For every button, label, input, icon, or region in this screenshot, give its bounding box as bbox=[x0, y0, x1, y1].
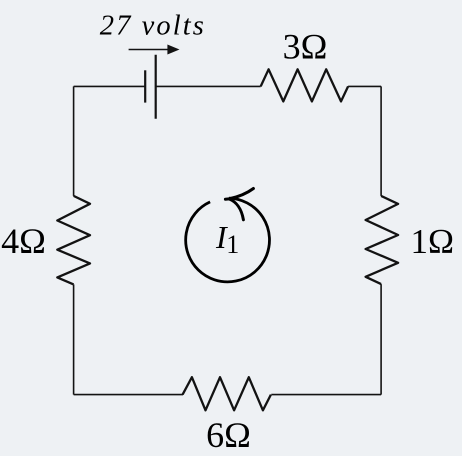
battery V1 27 volts bbox=[145, 55, 156, 119]
svg-text:1: 1 bbox=[226, 230, 239, 259]
svg-text:27 volts: 27 volts bbox=[100, 11, 204, 42]
battery positive plate (tall) bbox=[155, 55, 157, 119]
resistor R 4ohm bbox=[57, 196, 90, 285]
loop arrowhead bbox=[225, 189, 253, 220]
resistor R 6ohm bbox=[183, 377, 271, 410]
wire left upper segment bbox=[73, 86, 75, 195]
wire top-middle segment bbox=[156, 85, 261, 87]
svg-text:1Ω: 1Ω bbox=[410, 222, 454, 261]
svg-text:6Ω: 6Ω bbox=[206, 415, 251, 455]
battery negative plate (short) bbox=[144, 70, 146, 102]
mesh current loop arc bbox=[186, 198, 270, 282]
wire bottom-right segment bbox=[271, 394, 381, 396]
wire left lower segment bbox=[73, 284, 75, 394]
resistor R 3ohm bbox=[261, 69, 348, 101]
wire top-right segment bbox=[348, 85, 381, 87]
wire top-left segment bbox=[74, 85, 146, 87]
current direction arrow above battery bbox=[129, 45, 180, 55]
wire bottom-left segment bbox=[74, 394, 183, 396]
svg-text:4Ω: 4Ω bbox=[1, 221, 46, 261]
wire right lower segment bbox=[380, 284, 382, 395]
resistor R 1ohm bbox=[366, 196, 399, 284]
wire right upper segment bbox=[380, 86, 382, 195]
svg-text:3Ω: 3Ω bbox=[283, 26, 328, 66]
